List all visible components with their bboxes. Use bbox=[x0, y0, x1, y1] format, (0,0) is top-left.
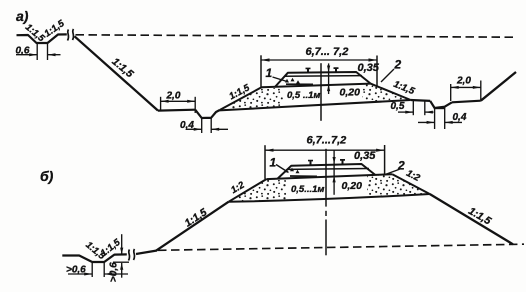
0,4 dimension arrows left ditch bbox=[186, 128, 202, 130]
prism inner line bbox=[285, 75, 362, 78]
svg-text:6,7...7,2: 6,7...7,2 bbox=[307, 135, 347, 147]
1:2 right slope fig b bbox=[392, 174, 429, 194]
top dimension extension lines fig b bbox=[264, 145, 266, 179]
main cutting slope 1:1,5 bbox=[75, 36, 159, 110]
base line of cutting floor bbox=[220, 100, 411, 110]
left toe slope bbox=[220, 87, 262, 110]
top dimension line fig a bbox=[261, 59, 377, 61]
right berm 2,0 bbox=[452, 101, 481, 103]
prism bottom shading line bbox=[286, 83, 313, 85]
left ditch funnel bbox=[195, 110, 219, 118]
svg-text:0,4: 0,4 bbox=[180, 120, 194, 131]
ballast triangles bbox=[285, 79, 289, 83]
dashed ground line fig a bbox=[76, 35, 514, 37]
svg-text:1:1,5: 1:1,5 bbox=[99, 237, 123, 259]
2,0 dimension ticks bbox=[160, 97, 162, 111]
0,6 dimension line with arrows bbox=[16, 54, 37, 56]
0,5 extension lines bbox=[412, 100, 414, 115]
dashed ground line fig b bbox=[158, 244, 524, 250]
svg-text:0,5: 0,5 bbox=[391, 101, 405, 112]
right ditch bottom bbox=[435, 107, 445, 109]
svg-text:0,20: 0,20 bbox=[340, 87, 361, 99]
svg-text:0,6: 0,6 bbox=[16, 46, 30, 57]
left ditch bottom bbox=[202, 117, 212, 119]
svg-text:1:1,5: 1:1,5 bbox=[183, 206, 210, 229]
centerline fig b (dash-dot) bbox=[325, 149, 327, 207]
svg-text:0,35: 0,35 bbox=[354, 150, 376, 162]
right ditch extension lines bbox=[434, 108, 436, 129]
2,0 right dimension line bbox=[451, 86, 481, 88]
vertical dim line fig b ditch bbox=[121, 234, 123, 254]
left toe stipple bbox=[221, 88, 283, 110]
>0,6 dimension arrows fig b bbox=[68, 273, 92, 275]
right ditch funnel bbox=[430, 101, 452, 108]
right toe slope bbox=[371, 84, 411, 100]
svg-text:0,5 ..1м: 0,5 ..1м bbox=[287, 90, 320, 101]
svg-text:б): б) bbox=[40, 168, 54, 184]
2,0 dimension line bbox=[161, 100, 196, 102]
svg-text:2,0: 2,0 bbox=[456, 76, 471, 87]
left berm line bbox=[158, 109, 195, 112]
svg-text:0,4: 0,4 bbox=[453, 112, 467, 123]
platform (berm) line bbox=[262, 84, 371, 88]
0,6 dimension extension lines bbox=[36, 44, 38, 61]
break symbol on line bbox=[68, 30, 69, 41]
mini ditch fig b ground line bbox=[62, 254, 127, 262]
0,5 dimension arrows bbox=[398, 111, 413, 113]
right cutting slope bbox=[481, 72, 516, 101]
svg-text:1: 1 bbox=[266, 66, 273, 80]
line after break to slope toe bbox=[136, 251, 157, 255]
top dimension extension lines fig a bbox=[260, 55, 262, 87]
0,4 dimension arrows right ditch bbox=[418, 121, 434, 123]
svg-text:0,20: 0,20 bbox=[342, 180, 363, 192]
rail right fig b bbox=[340, 159, 345, 164]
ballast prism fig a bbox=[275, 72, 371, 87]
short extension at ditch bottom level bbox=[113, 261, 129, 263]
rail left fig a bbox=[306, 68, 311, 73]
break symbol fig b bbox=[129, 250, 130, 261]
1:2 left slope fig b bbox=[229, 179, 267, 202]
main left slope fig b bbox=[156, 202, 229, 251]
left stipple fig b bbox=[231, 180, 286, 201]
svg-text:а): а) bbox=[16, 8, 29, 24]
right berm 0,5 bbox=[411, 99, 431, 102]
prism inner line fig b bbox=[288, 168, 369, 171]
top dimension line fig b bbox=[265, 149, 385, 151]
svg-text:>0,6: >0,6 bbox=[66, 265, 86, 276]
svg-text:6,7... 7,2: 6,7... 7,2 bbox=[306, 46, 349, 58]
left mini ditch ground line bbox=[17, 34, 67, 43]
ballast prism fig b bbox=[278, 164, 376, 179]
0,20 dimension vertical line fig a bbox=[328, 63, 330, 94]
svg-text:1: 1 bbox=[270, 156, 277, 170]
0,20 dimension vertical line fig b bbox=[333, 150, 335, 195]
rail left fig b bbox=[308, 160, 313, 165]
svg-text:2: 2 bbox=[394, 58, 402, 72]
svg-text:>0,6: >0,6 bbox=[109, 262, 120, 282]
svg-text:0,35: 0,35 bbox=[358, 62, 380, 74]
main right slope fig b bbox=[430, 194, 513, 244]
band bottom line fig b bbox=[229, 194, 430, 202]
2,0 right ticks bbox=[450, 84, 452, 101]
>0,6 extension lines fig b bbox=[91, 262, 93, 277]
svg-text:1:1,5: 1:1,5 bbox=[109, 56, 135, 81]
svg-text:2,0: 2,0 bbox=[166, 91, 181, 102]
svg-text:0,5...1м: 0,5...1м bbox=[291, 184, 324, 195]
centerline fig a bbox=[320, 63, 322, 121]
berm line fig b bbox=[266, 174, 392, 179]
prism bottom shading line fig b bbox=[290, 175, 317, 177]
right stipple fig b bbox=[367, 175, 428, 198]
right toe stipple bbox=[362, 84, 410, 103]
left ditch extension lines bbox=[201, 118, 203, 133]
rail right fig a bbox=[334, 67, 339, 72]
ballast triangles fig b bbox=[285, 169, 289, 173]
